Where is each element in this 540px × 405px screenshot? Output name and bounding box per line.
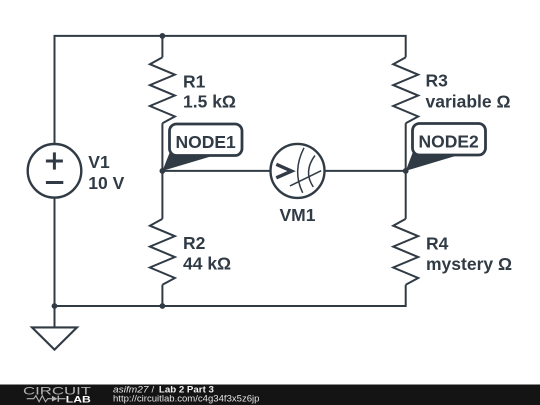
svg-text:VM1: VM1 — [280, 205, 316, 225]
svg-text:variable Ω: variable Ω — [426, 92, 511, 112]
svg-text:mystery Ω: mystery Ω — [426, 254, 512, 274]
svg-text:R3: R3 — [426, 70, 449, 90]
svg-text:1.5 kΩ: 1.5 kΩ — [183, 92, 236, 112]
svg-text:R4: R4 — [426, 234, 449, 254]
svg-text:NODE1: NODE1 — [176, 132, 237, 152]
svg-text:10 V: 10 V — [88, 173, 124, 193]
svg-text:NODE2: NODE2 — [419, 132, 480, 152]
svg-text:44 kΩ: 44 kΩ — [183, 254, 231, 274]
svg-text:R1: R1 — [183, 71, 206, 91]
svg-text:R2: R2 — [183, 233, 206, 253]
svg-text:LAB: LAB — [66, 395, 92, 405]
svg-text:http://circuitlab.com/c4g34f3x: http://circuitlab.com/c4g34f3x5z6jp — [113, 393, 260, 404]
svg-text:V1: V1 — [88, 152, 110, 172]
